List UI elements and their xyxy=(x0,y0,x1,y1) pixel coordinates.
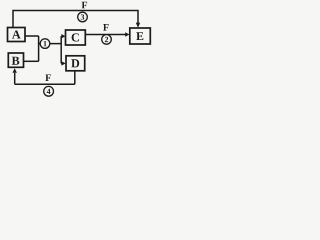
wire bottom feedback up to B xyxy=(14,73,16,85)
wire top feedback from A up and across to E xyxy=(13,11,138,28)
arrowhead into C xyxy=(61,34,65,38)
wire merged line through node 1 xyxy=(39,43,62,45)
box B xyxy=(8,53,23,67)
node circle 1 xyxy=(40,39,50,49)
label D xyxy=(71,59,79,67)
wire junction vertical between C and D feeds xyxy=(60,36,62,63)
digit 1 xyxy=(44,41,47,46)
node circle 4 xyxy=(44,86,54,96)
wire D output down xyxy=(74,71,76,85)
wire bottom feedback leftward xyxy=(15,83,75,85)
digit 3 xyxy=(81,14,84,19)
label B xyxy=(12,57,20,65)
label C xyxy=(72,33,79,41)
box A xyxy=(8,28,26,42)
label F top xyxy=(82,2,87,9)
arrowhead into E left xyxy=(125,32,129,36)
digit 2 xyxy=(105,37,108,42)
wire stub into C xyxy=(60,35,63,37)
node circle 2 xyxy=(102,35,112,45)
wire stub into D xyxy=(60,62,63,64)
arrowhead into D xyxy=(61,61,65,65)
box D xyxy=(66,56,85,71)
box C xyxy=(66,30,86,45)
node circle 3 xyxy=(78,12,88,22)
wire merge vertical xyxy=(38,36,40,61)
wire C to E xyxy=(85,34,125,36)
label E xyxy=(136,32,143,40)
label F middle xyxy=(103,24,108,31)
box E xyxy=(130,28,151,44)
wire B output right xyxy=(24,60,39,62)
label F bottom xyxy=(45,74,50,81)
label A xyxy=(12,30,21,38)
wire A output right xyxy=(25,35,39,37)
digit 4 xyxy=(47,89,51,94)
arrowhead into B bottom xyxy=(13,68,17,73)
arrowhead into E top xyxy=(136,23,140,28)
